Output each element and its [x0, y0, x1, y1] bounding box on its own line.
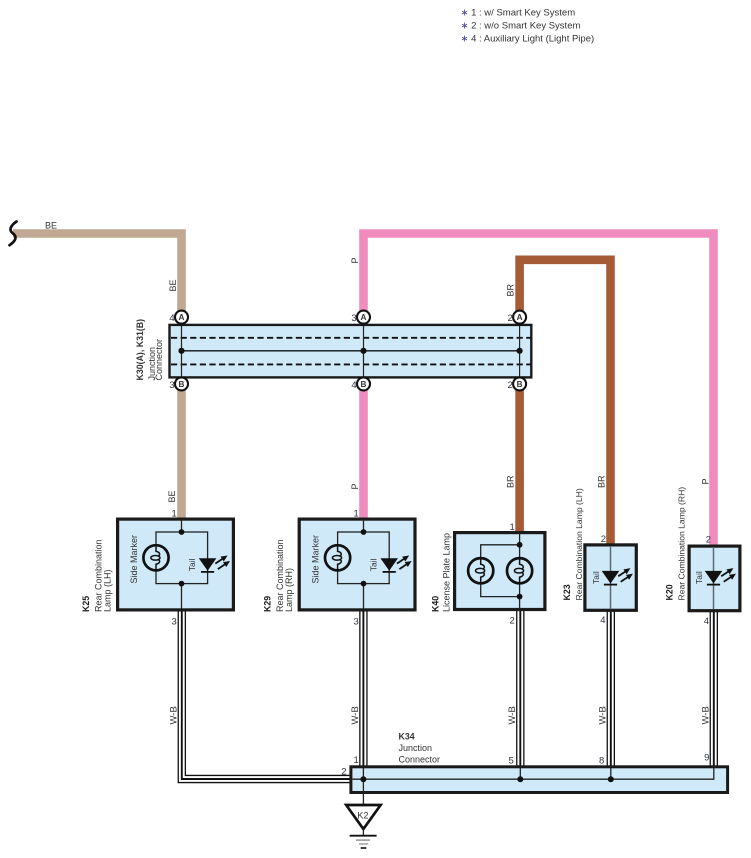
- svg-text:P: P: [350, 483, 360, 489]
- K34 column pin 8: [610, 768, 612, 779]
- pin B circle col1: [175, 377, 188, 390]
- ground K2: [346, 805, 380, 848]
- pin B circle col3: [513, 377, 526, 390]
- svg-text:W-B: W-B: [701, 706, 712, 724]
- K40 node top: [517, 542, 523, 548]
- K23 internal wire: [610, 546, 612, 609]
- svg-text:Side Marker: Side Marker: [129, 535, 139, 584]
- svg-text:K30(A), K31(B): K30(A), K31(B): [135, 319, 145, 381]
- svg-text:K34: K34: [399, 732, 415, 742]
- svg-text:W-B: W-B: [598, 706, 609, 724]
- junction node on bus, column 3: [517, 348, 523, 354]
- wire P from K30 pin 3A up, over and down to K20 pin 2: [364, 234, 714, 548]
- K40 node bottom: [517, 594, 523, 600]
- svg-text:∗ 4 : Auxiliary Light (Light P: ∗ 4 : Auxiliary Light (Light Pipe): [461, 34, 595, 45]
- note legend: [461, 7, 595, 44]
- svg-text:A: A: [517, 313, 523, 322]
- svg-text:4: 4: [600, 615, 605, 626]
- svg-text:K25: K25: [81, 596, 91, 612]
- svg-text:License Plate Lamp: License Plate Lamp: [442, 533, 452, 612]
- K30 internal column pin 4A-3B: [181, 326, 183, 377]
- svg-text:W-B: W-B: [169, 706, 180, 724]
- svg-text:BE: BE: [167, 490, 177, 502]
- lamp K29 Rear Combination Lamp RH body: [299, 519, 415, 610]
- junction node on bus, column 1: [178, 348, 184, 354]
- svg-text:2: 2: [341, 766, 346, 777]
- svg-text:Tail: Tail: [694, 571, 704, 584]
- K40 bulb right: [507, 558, 532, 583]
- svg-text:BE: BE: [45, 221, 57, 231]
- svg-text:1: 1: [510, 522, 515, 533]
- harness continuation squiggle: [10, 222, 17, 246]
- svg-text:∗ 1 : w/ Smart Key System: ∗ 1 : w/ Smart Key System: [461, 7, 576, 18]
- junction connector K34 body: [351, 767, 728, 793]
- K34 node pin1: [360, 776, 366, 782]
- svg-text:5: 5: [509, 756, 514, 767]
- pin A circle col3: [513, 311, 526, 324]
- wire W-B from K23 pin 4 to K34 pin 8: [607, 610, 615, 770]
- svg-text:K40: K40: [431, 596, 441, 612]
- svg-text:3: 3: [172, 617, 177, 628]
- K25 node bottom: [179, 581, 185, 587]
- svg-text:1: 1: [354, 509, 359, 520]
- svg-text:K23: K23: [562, 584, 572, 600]
- svg-text:K29: K29: [263, 596, 273, 612]
- svg-text:BR: BR: [506, 475, 516, 488]
- K20 tail LED: [705, 566, 738, 585]
- lamp K23 Rear Combination Lamp LH (tail LED) body: [585, 545, 636, 610]
- svg-text:2: 2: [706, 534, 711, 545]
- svg-text:BR: BR: [597, 475, 607, 488]
- wire W-B from K25 pin 3 to K34 pin 2: [182, 610, 352, 779]
- svg-text:4: 4: [704, 616, 709, 627]
- K29 node bottom: [361, 581, 367, 587]
- wire BE from K30 pin 3B to K25 pin 1: [177, 389, 186, 521]
- svg-text:Junction: Junction: [399, 743, 433, 753]
- svg-text:Tail: Tail: [187, 558, 197, 571]
- svg-text:∗ 2 : w/o Smart Key System: ∗ 2 : w/o Smart Key System: [461, 20, 581, 31]
- K23 tail LED: [602, 566, 635, 585]
- svg-text:4: 4: [351, 380, 356, 391]
- K20 internal wire: [713, 547, 715, 609]
- wire W-B from K20 pin 4 to K34 pin 9: [710, 610, 718, 770]
- svg-text:K2: K2: [357, 811, 368, 821]
- svg-text:B: B: [517, 380, 523, 389]
- K40 internal wiring: [519, 533, 521, 609]
- wire W-B from K40 pin 2 to K34 pin 5: [516, 610, 524, 770]
- svg-text:3: 3: [351, 313, 356, 324]
- wire BR from K30 pin 2B to K40 pin 1: [515, 389, 524, 534]
- lamp K40 License Plate Lamp body: [455, 533, 545, 610]
- K34 column pin 5: [519, 768, 521, 779]
- wire BR from K30 pin 2A up, over and down to K23 pin 2: [520, 260, 611, 547]
- svg-text:W-B: W-B: [507, 706, 518, 724]
- K34 node pin5: [517, 776, 523, 782]
- K30 internal column pin 3A-4B: [363, 326, 365, 377]
- svg-text:W-B: W-B: [350, 706, 361, 724]
- svg-text:A: A: [179, 313, 185, 322]
- svg-text:4: 4: [169, 313, 174, 324]
- svg-text:BR: BR: [506, 283, 516, 296]
- svg-text:8: 8: [599, 756, 604, 767]
- svg-text:1: 1: [172, 509, 177, 520]
- svg-text:3: 3: [354, 617, 359, 628]
- svg-text:P: P: [700, 478, 710, 484]
- svg-text:1: 1: [354, 755, 359, 766]
- K29 internal wiring loop: [363, 520, 365, 532]
- wire P from K30 pin 4B to K29 pin 1: [359, 389, 368, 521]
- svg-text:K20: K20: [665, 584, 675, 600]
- svg-text:Lamp (RH): Lamp (RH): [284, 568, 294, 612]
- svg-text:3: 3: [169, 380, 174, 391]
- svg-text:2: 2: [508, 380, 513, 391]
- svg-text:BE: BE: [168, 279, 178, 291]
- pin A circle col1: [175, 311, 188, 324]
- lamp K20 Rear Combination Lamp RH (tail LED) body: [689, 546, 740, 611]
- K34 internal bus: [353, 768, 714, 779]
- svg-text:9: 9: [704, 752, 709, 763]
- K25 side marker bulb: [143, 545, 168, 570]
- K29 side marker bulb: [325, 545, 350, 570]
- svg-text:Tail: Tail: [591, 571, 601, 584]
- wire W-B from K29 pin 3 to K34 pin 1: [359, 610, 367, 770]
- svg-text:2: 2: [510, 615, 515, 626]
- K40 bulb left: [468, 558, 493, 583]
- svg-text:2: 2: [508, 313, 513, 324]
- junction node on bus, column 2: [360, 348, 366, 354]
- K29 tail LED: [380, 553, 413, 572]
- junction connector K30(A), K31(B) body: [170, 325, 532, 378]
- svg-text:Rear Combination Lamp (RH): Rear Combination Lamp (RH): [677, 487, 687, 601]
- wire BE from harness to K30 pin 4A: [13, 234, 182, 313]
- svg-text:B: B: [179, 380, 185, 389]
- K25 node top: [179, 529, 185, 535]
- K25 tail LED: [199, 553, 232, 572]
- K29 node top: [361, 529, 367, 535]
- K25 internal wiring loop: [181, 520, 183, 532]
- svg-text:Side Marker: Side Marker: [311, 535, 321, 584]
- K34 column from pin 1 to ground: [362, 768, 364, 805]
- svg-text:2: 2: [601, 534, 606, 545]
- svg-text:Lamp (LH): Lamp (LH): [103, 569, 113, 612]
- K34 node pin8: [608, 776, 614, 782]
- K30 internal column pin 2A-2B: [519, 326, 521, 377]
- pin B circle col2: [357, 377, 370, 390]
- svg-text:Rear Combination Lamp (LH): Rear Combination Lamp (LH): [574, 488, 584, 600]
- pin A circle col2: [357, 311, 370, 324]
- svg-text:A: A: [361, 313, 367, 322]
- svg-text:P: P: [350, 257, 360, 263]
- svg-text:B: B: [361, 380, 367, 389]
- lamp K25 Rear Combination Lamp LH body: [118, 519, 234, 610]
- svg-text:Connector: Connector: [154, 339, 164, 381]
- svg-text:Tail: Tail: [369, 558, 379, 571]
- svg-text:Connector: Connector: [399, 755, 441, 765]
